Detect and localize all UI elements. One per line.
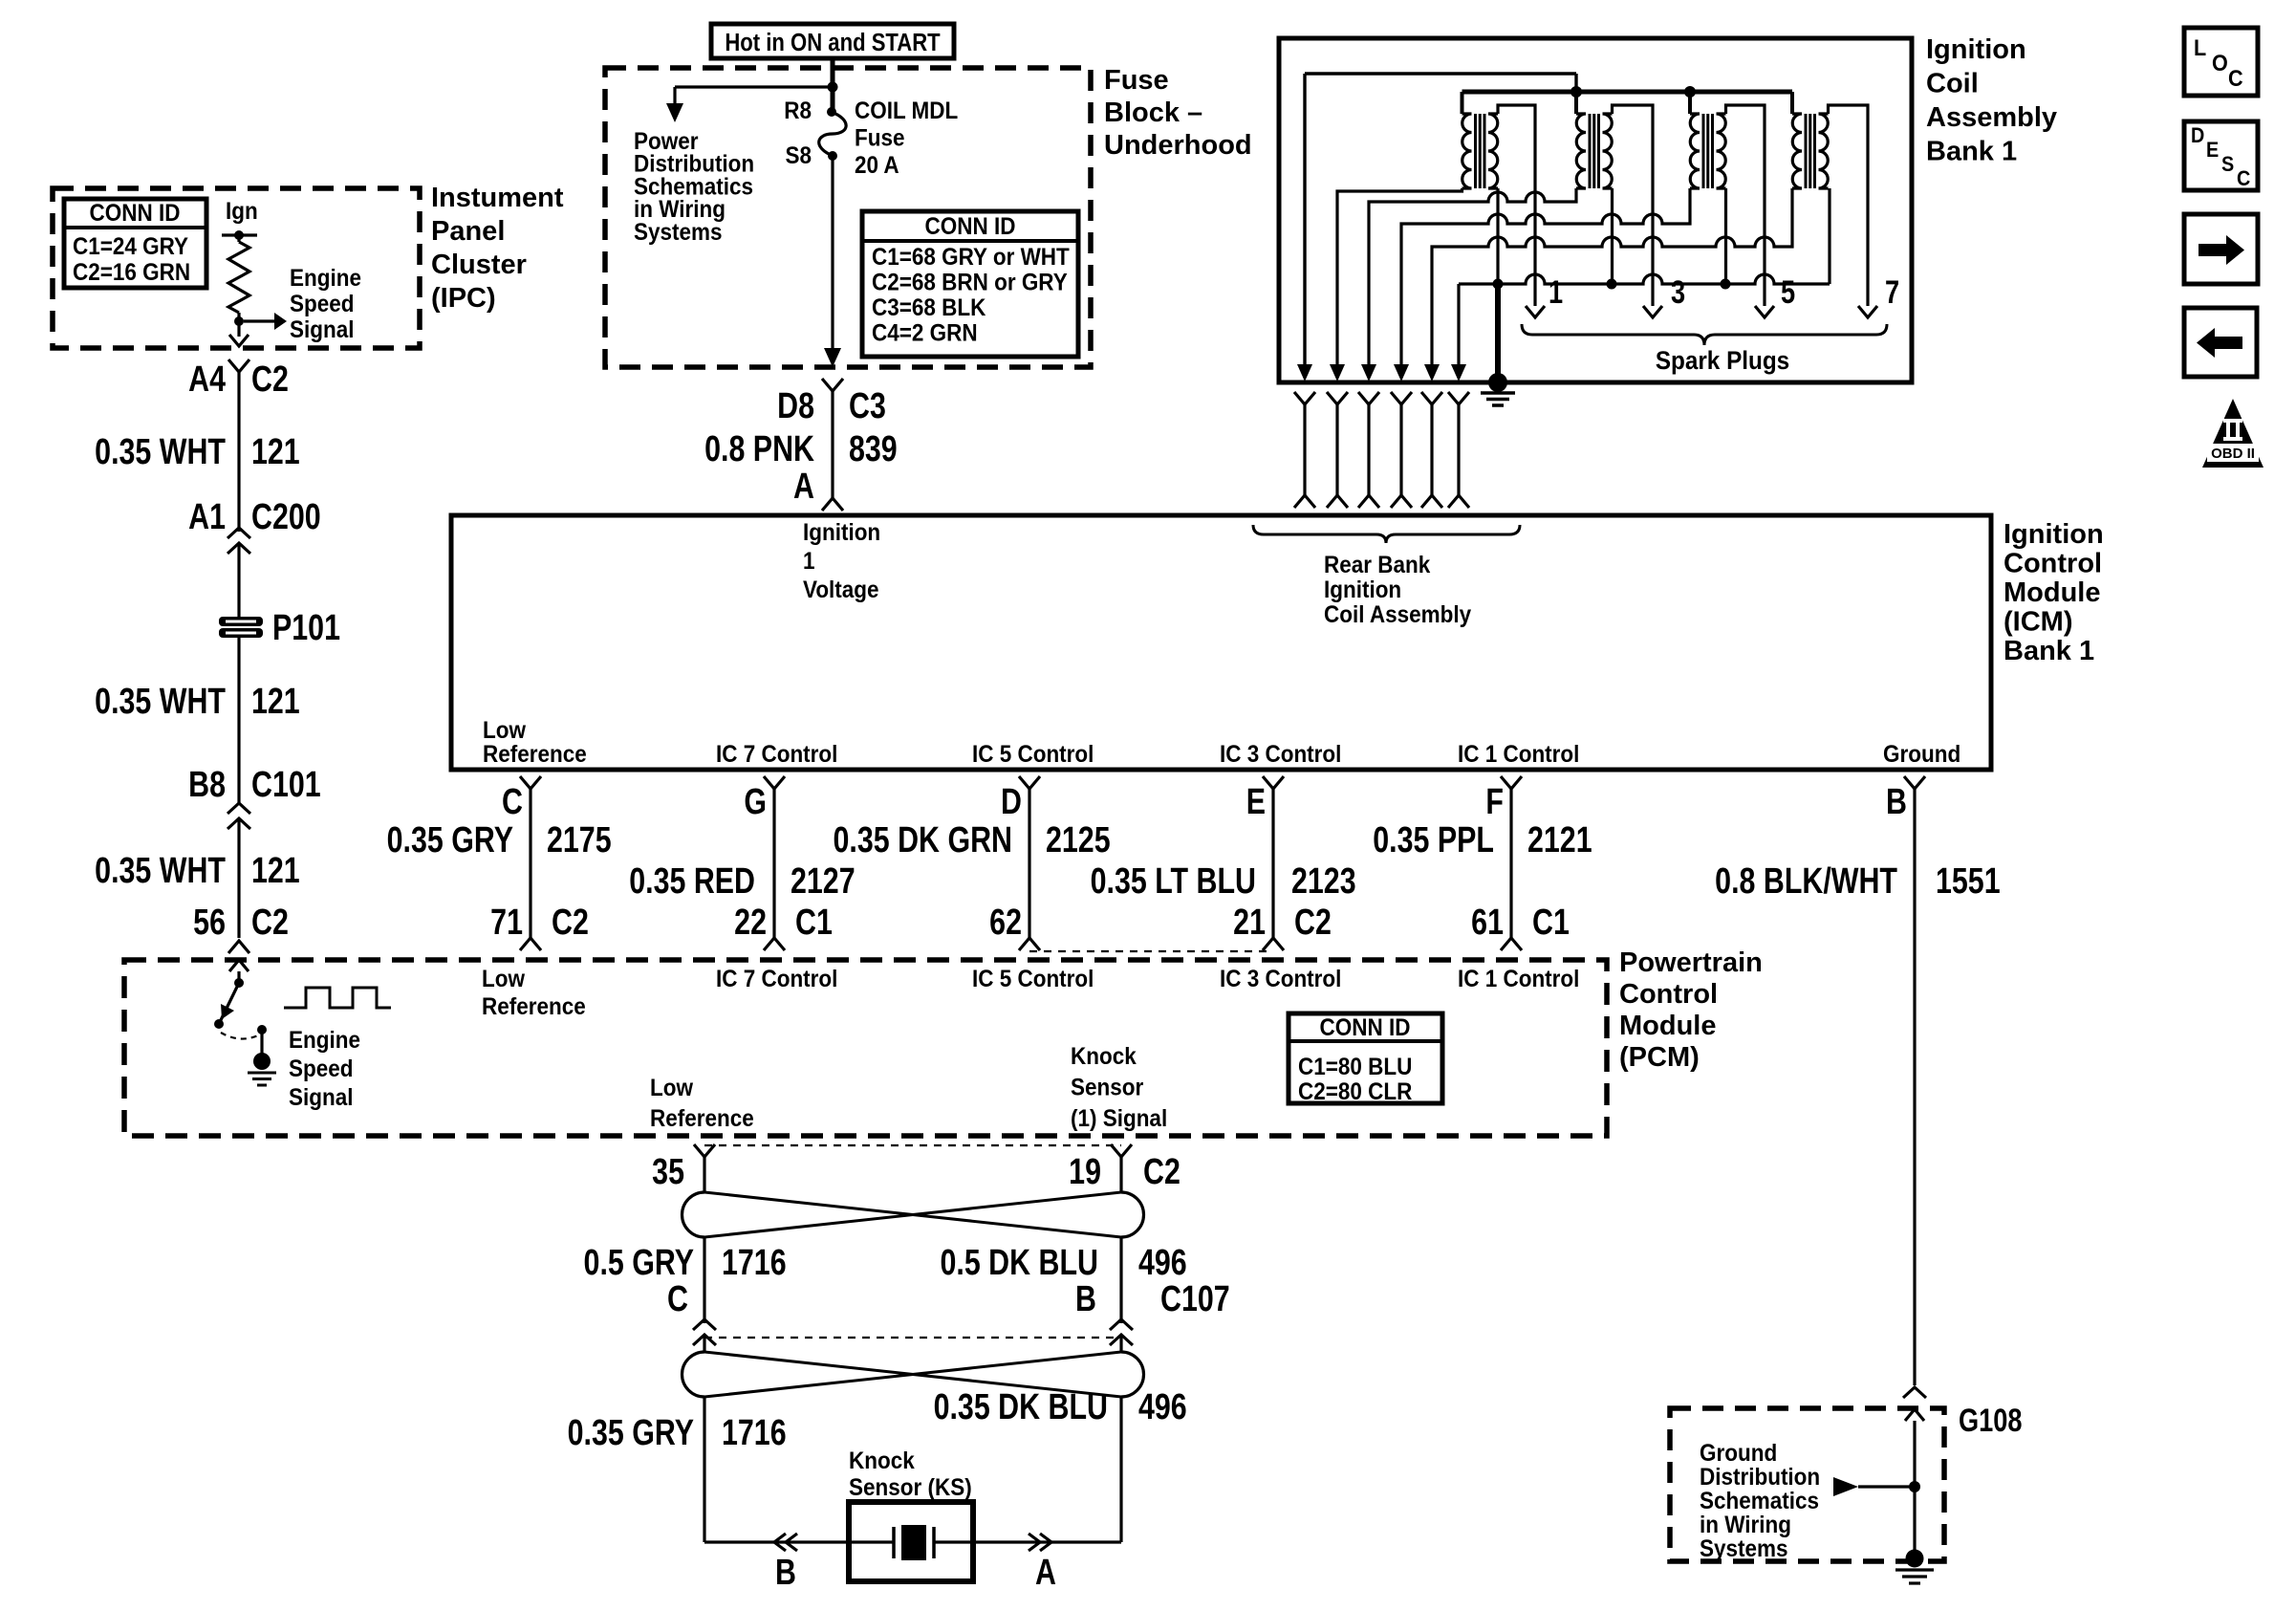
svg-text:0.35 DK GRN: 0.35 DK GRN <box>834 820 1012 860</box>
svg-text:2127: 2127 <box>791 861 856 902</box>
wire pin 19 down <box>1119 1157 1122 1192</box>
svg-text:C1=24 GRY: C1=24 GRY <box>73 233 188 260</box>
switch contact dot 2 <box>257 1025 267 1034</box>
switch contact dot 1 <box>214 1019 224 1029</box>
svg-text:E: E <box>1246 782 1266 822</box>
svg-text:62: 62 <box>989 903 1022 943</box>
svg-text:Rear Bank: Rear Bank <box>1324 552 1431 578</box>
svg-text:C2=68 BRN or GRY: C2=68 BRN or GRY <box>872 269 1068 295</box>
svg-text:IC 5 Control: IC 5 Control <box>972 966 1094 992</box>
wire C200 to P101 <box>237 543 240 618</box>
svg-text:2121: 2121 <box>1527 820 1592 860</box>
spark plug wire 1 arrow <box>1526 306 1545 317</box>
thin dashed connector line pins 35-19 <box>704 1144 1121 1146</box>
Fuse block CONN ID table box <box>862 211 1078 357</box>
svg-text:P101: P101 <box>272 608 340 648</box>
transformer T1 secondary winding <box>1488 114 1498 188</box>
T4 primary bottom lead to terminal <box>1432 188 1792 376</box>
wire from ICM pin F <box>1509 789 1512 938</box>
T3 primary bottom lead to terminal <box>1401 188 1690 376</box>
svg-text:E: E <box>2206 139 2219 162</box>
svg-text:B: B <box>1886 782 1907 822</box>
svg-text:C: C <box>502 782 523 822</box>
svg-text:A4: A4 <box>188 359 226 400</box>
grommet P101 symbol <box>219 617 263 626</box>
in-line connector C101 chevrons <box>227 803 250 814</box>
svg-text:IC 1 Control: IC 1 Control <box>1458 966 1579 992</box>
IPC CONN ID table box <box>64 199 206 288</box>
spark plugs brace <box>1522 324 1887 345</box>
svg-text:Hot in ON and START: Hot in ON and START <box>725 29 941 56</box>
in-line connector C200 chevrons <box>227 528 250 538</box>
engine speed signal arrow <box>244 319 274 322</box>
Knock Sensor (KS) box <box>849 1502 973 1581</box>
coil-ICM wire 1 with connectors <box>1294 392 1315 404</box>
svg-text:0.35 WHT: 0.35 WHT <box>95 432 226 472</box>
OBD II icon triangle <box>2202 399 2264 468</box>
svg-text:0.35 PPL: 0.35 PPL <box>1373 820 1494 860</box>
PCM pin 19 Y connector <box>1111 1144 1132 1157</box>
LOC icon box <box>2184 28 2258 96</box>
svg-text:1716: 1716 <box>722 1413 787 1453</box>
wire to twisted pair 2 left <box>703 1335 705 1352</box>
svg-text:Ignition: Ignition <box>1926 34 2026 65</box>
svg-text:Bank 1: Bank 1 <box>1926 137 2017 167</box>
transformer T3 core <box>1702 114 1705 188</box>
svg-text:D: D <box>2191 124 2204 147</box>
svg-text:2123: 2123 <box>1291 861 1356 902</box>
svg-text:F: F <box>1485 782 1504 822</box>
svg-text:Cluster: Cluster <box>431 250 527 280</box>
svg-text:C2=80 CLR: C2=80 CLR <box>1298 1078 1412 1105</box>
PCM pin 22 inverted Y <box>764 938 785 950</box>
pin A inverted Y into ICM <box>822 498 843 511</box>
svg-text:C: C <box>2237 167 2250 190</box>
svg-text:R8: R8 <box>784 98 812 124</box>
ground symbol G108 <box>1895 1568 1934 1571</box>
wire from ICM pin D <box>1028 789 1030 938</box>
svg-text:496: 496 <box>1138 1387 1187 1427</box>
svg-text:CONN ID: CONN ID <box>90 200 181 227</box>
arrow terminal 1 <box>1297 364 1312 381</box>
Ignition Coil Assembly box <box>1279 38 1912 382</box>
svg-text:71: 71 <box>490 903 523 943</box>
svg-text:B8: B8 <box>188 765 226 805</box>
primary supply bus <box>1462 90 1793 95</box>
resistor R (engine speed signal) zigzag <box>228 242 249 313</box>
ICM pin G Y connector <box>764 776 785 789</box>
svg-text:Ign: Ign <box>226 198 258 225</box>
svg-text:Ignition: Ignition <box>2004 519 2104 550</box>
svg-text:1: 1 <box>803 548 815 575</box>
svg-text:Signal: Signal <box>289 1084 353 1111</box>
ground distribution branch line <box>1858 1485 1915 1488</box>
wire exit arrow IPC box <box>229 335 249 346</box>
wire 496 lower segment <box>1119 1397 1122 1542</box>
coil-ICM wire 2 with connectors <box>1327 392 1348 404</box>
svg-text:21: 21 <box>1233 903 1266 943</box>
ground dot coil assembly <box>1488 373 1507 392</box>
wire fuse output down <box>831 156 834 350</box>
PCM pin 71 inverted Y <box>520 938 541 950</box>
ground dot engine speed signal <box>253 1053 271 1070</box>
wire 121 segment 1 (0.35 WHT) <box>237 372 240 532</box>
T2 secondary bottom lead <box>1611 188 1614 284</box>
svg-text:Block –: Block – <box>1104 98 1202 128</box>
wire 839 (0.8 PNK) <box>831 391 834 498</box>
svg-text:0.35 GRY: 0.35 GRY <box>387 820 513 860</box>
svg-text:Sensor: Sensor <box>1071 1074 1143 1100</box>
svg-text:Systems: Systems <box>634 219 723 246</box>
switch dashed travel arc <box>221 1033 260 1039</box>
svg-text:CONN ID: CONN ID <box>925 213 1016 240</box>
T3 secondary top lead to spark plug wire 5 <box>1726 105 1765 306</box>
in-line connector C107 chevrons right <box>1110 1319 1133 1330</box>
svg-text:Ignition: Ignition <box>1324 577 1401 603</box>
svg-text:121: 121 <box>251 432 300 472</box>
svg-text:Signal: Signal <box>290 316 354 343</box>
ignition coil transformer T4 primary winding <box>1790 92 1794 114</box>
arrow exit fuse block <box>824 348 841 367</box>
svg-text:C2=16 GRN: C2=16 GRN <box>73 259 190 286</box>
svg-text:C2: C2 <box>1294 903 1332 943</box>
svg-text:61: 61 <box>1471 903 1504 943</box>
ignition coil transformer T1 primary winding <box>1461 92 1464 114</box>
label 0.8 BLK/WHT wire chevron above G108 <box>1903 1387 1926 1398</box>
svg-text:Control: Control <box>2004 549 2102 579</box>
coil-ICM wire 3 with connectors <box>1358 392 1379 404</box>
svg-text:0.35 WHT: 0.35 WHT <box>95 851 226 891</box>
svg-text:S8: S8 <box>785 142 812 169</box>
transformer T3 secondary winding <box>1717 114 1726 188</box>
svg-text:121: 121 <box>251 682 300 722</box>
svg-text:Module: Module <box>2004 577 2101 608</box>
G108 ground distribution dashed box <box>1670 1408 1944 1561</box>
svg-text:OBD II: OBD II <box>2211 446 2255 462</box>
wire Ign to resistor <box>237 235 240 242</box>
svg-text:C1=68 GRY or WHT: C1=68 GRY or WHT <box>872 244 1070 271</box>
svg-text:Knock: Knock <box>1071 1043 1137 1070</box>
svg-text:IC 3 Control: IC 3 Control <box>1220 966 1341 992</box>
junction dot engine speed signal <box>234 316 244 326</box>
svg-text:839: 839 <box>849 429 898 469</box>
PCM pin 35 Y connector <box>694 1144 715 1157</box>
svg-text:C1=80 BLU: C1=80 BLU <box>1298 1054 1412 1080</box>
ICM pin E Y connector <box>1263 776 1284 789</box>
svg-text:35: 35 <box>652 1152 684 1192</box>
PCM entry arrow pin 56 <box>229 960 249 971</box>
svg-text:IC 7 Control: IC 7 Control <box>716 741 837 768</box>
svg-text:C2: C2 <box>251 903 289 943</box>
thin dashed connector line between pins 62 and 21 <box>1029 950 1273 952</box>
branch wire to power distribution <box>675 85 833 88</box>
T2 primary bottom lead to terminal <box>1369 188 1576 376</box>
switch moving contact <box>219 983 239 1024</box>
spark plug wire 3 arrow <box>1643 306 1662 317</box>
ground symbol coil assembly <box>1481 391 1515 395</box>
coil-ICM wire 4 with connectors <box>1391 392 1412 404</box>
knock sensor bottom wire right <box>973 1540 1121 1543</box>
wire hot feed into fuse block <box>831 58 835 112</box>
svg-text:121: 121 <box>251 851 300 891</box>
svg-text:C: C <box>667 1279 688 1319</box>
arrow down power distribution <box>666 103 683 122</box>
svg-text:C3=68 BLK: C3=68 BLK <box>872 294 986 321</box>
pin 56 inverted Y into PCM <box>228 941 249 953</box>
back arrow icon box <box>2184 308 2257 377</box>
svg-text:IC 5 Control: IC 5 Control <box>972 741 1094 768</box>
T1 secondary bottom lead <box>1496 188 1499 284</box>
PCM pin 62 inverted Y <box>1019 938 1040 950</box>
wire from ICM pin G <box>772 789 775 938</box>
T3 secondary bottom lead <box>1724 188 1727 284</box>
svg-text:C2: C2 <box>251 359 289 400</box>
svg-text:Speed: Speed <box>289 1056 353 1082</box>
arrow terminal 4 <box>1394 364 1409 381</box>
svg-text:Panel: Panel <box>431 216 505 247</box>
svg-text:2125: 2125 <box>1046 820 1111 860</box>
svg-text:Reference: Reference <box>650 1105 754 1132</box>
svg-text:Systems: Systems <box>1700 1535 1788 1562</box>
svg-text:D: D <box>1001 782 1022 822</box>
svg-text:G: G <box>744 782 767 822</box>
wire 496 upper segment <box>1119 1237 1122 1323</box>
twisted pair symbol 1 <box>682 1192 705 1237</box>
forward arrow icon box <box>2184 214 2258 284</box>
svg-text:C2: C2 <box>1143 1152 1180 1192</box>
IPC dashed box (Instrument Panel Cluster) <box>53 188 420 348</box>
ignition coil transformer T2 primary winding <box>1574 92 1578 114</box>
twisted pair symbol 2 <box>682 1352 705 1397</box>
connector pin A4/C2 Y symbol <box>228 359 249 372</box>
svg-text:Coil: Coil <box>1926 69 1979 99</box>
PCM pin 61 inverted Y <box>1501 938 1522 950</box>
svg-text:O: O <box>2212 50 2228 76</box>
svg-text:0.35 RED: 0.35 RED <box>629 861 755 902</box>
svg-text:IC 7 Control: IC 7 Control <box>716 966 837 992</box>
svg-text:IC 1 Control: IC 1 Control <box>1458 741 1579 768</box>
svg-text:Spark Plugs: Spark Plugs <box>1656 347 1789 375</box>
svg-text:Fuse: Fuse <box>855 124 904 151</box>
junction dot feed branch <box>828 82 838 93</box>
wire 1716 upper segment <box>703 1237 705 1323</box>
entry arrow into G108 box <box>1905 1409 1924 1421</box>
wire 121 segment 2 <box>237 638 240 804</box>
in-line connector C107 chevrons left <box>693 1319 716 1330</box>
wire pin 35 down <box>703 1157 705 1192</box>
svg-text:S: S <box>2221 153 2234 176</box>
spark plug wire 7 arrow <box>1858 306 1877 317</box>
arrow terminal 2 <box>1330 364 1345 381</box>
arrow terminal 5 <box>1424 364 1440 381</box>
svg-text:(ICM): (ICM) <box>2004 607 2072 638</box>
svg-text:C3: C3 <box>849 386 886 426</box>
connector D8/C3 Y symbol <box>822 379 843 391</box>
svg-text:1: 1 <box>1549 273 1563 311</box>
svg-text:3: 3 <box>1671 273 1685 311</box>
transformer T2 secondary winding <box>1603 114 1613 188</box>
svg-text:5: 5 <box>1781 273 1795 311</box>
svg-text:0.35 GRY: 0.35 GRY <box>568 1413 694 1453</box>
wire ignition feed from terminal 1 <box>1303 74 1306 376</box>
PCM dashed box (Powertrain Control Module) <box>124 960 1607 1136</box>
svg-text:C107: C107 <box>1160 1279 1230 1319</box>
transformer T4 core <box>1805 114 1808 188</box>
ICM pin C Y connector <box>520 776 541 789</box>
svg-text:Ignition: Ignition <box>803 519 880 546</box>
ground wire coil assembly <box>1495 284 1501 382</box>
svg-text:2175: 2175 <box>547 820 612 860</box>
svg-text:0.35 LT BLU: 0.35 LT BLU <box>1091 861 1256 902</box>
arrow terminal 3 <box>1361 364 1376 381</box>
svg-text:C4=2 GRN: C4=2 GRN <box>872 319 978 346</box>
svg-text:0.35 WHT: 0.35 WHT <box>95 682 226 722</box>
svg-text:Assembly: Assembly <box>1926 102 2057 133</box>
DESC icon box <box>2184 121 2258 190</box>
ICM pin F Y connector <box>1501 776 1522 789</box>
svg-text:C200: C200 <box>251 497 321 537</box>
wire contact to ground <box>260 1030 263 1054</box>
Hot in ON and START box <box>711 24 954 58</box>
Ign node tick and junction dot <box>222 233 257 236</box>
ICM box (Ignition Control Module) <box>451 515 1991 770</box>
svg-text:Control: Control <box>1619 979 1718 1010</box>
svg-text:0.5 DK BLU: 0.5 DK BLU <box>940 1243 1098 1283</box>
svg-text:1551: 1551 <box>1936 861 2001 902</box>
svg-text:Reference: Reference <box>483 741 587 768</box>
svg-text:C2: C2 <box>552 903 589 943</box>
svg-text:Low: Low <box>482 966 525 992</box>
svg-text:7: 7 <box>1885 273 1899 311</box>
svg-text:Speed: Speed <box>290 291 354 317</box>
T1 secondary top lead to spark plug wire 1 <box>1498 105 1535 306</box>
knock sensor pin A chevrons <box>1040 1534 1051 1551</box>
svg-text:A1: A1 <box>188 497 226 537</box>
svg-text:56: 56 <box>193 903 226 943</box>
coil-ICM wire 5 with connectors <box>1421 392 1442 404</box>
wire to twisted pair 2 right <box>1119 1335 1122 1352</box>
T4 secondary bottom lead to return bus <box>1828 188 1830 284</box>
transformer T2 core <box>1589 114 1592 188</box>
transformer T1 core <box>1474 114 1477 188</box>
wire from ICM pin C <box>529 789 531 938</box>
junction dot bus T2 <box>1570 86 1582 98</box>
svg-text:Reference: Reference <box>482 993 586 1020</box>
svg-text:L: L <box>2194 34 2206 60</box>
svg-text:B: B <box>775 1553 796 1593</box>
svg-text:0.35 DK BLU: 0.35 DK BLU <box>934 1387 1108 1427</box>
secondary return bus <box>1459 274 1830 284</box>
svg-text:Powertrain: Powertrain <box>1619 947 1763 978</box>
svg-text:D8: D8 <box>777 386 814 426</box>
svg-text:Knock: Knock <box>849 1448 915 1474</box>
svg-text:C101: C101 <box>251 765 321 805</box>
ignition coil transformer T3 primary winding <box>1688 92 1692 114</box>
wire resistor to junction <box>237 313 240 337</box>
svg-text:Instument: Instument <box>431 183 564 213</box>
svg-text:19: 19 <box>1069 1152 1101 1192</box>
svg-text:22: 22 <box>734 903 767 943</box>
ground dot G108 <box>1906 1550 1924 1568</box>
ICM pin D Y connector <box>1019 776 1040 789</box>
T4 secondary top lead to spark plug wire 7 <box>1829 105 1869 306</box>
ICM pin B Y connector <box>1904 776 1925 789</box>
svg-text:C1: C1 <box>795 903 833 943</box>
rear bank brace <box>1253 525 1520 543</box>
Fuse Block dashed box <box>605 68 1091 367</box>
thin dashed connector line C107 <box>704 1337 1121 1339</box>
T1 primary bottom lead to terminal <box>1337 188 1462 376</box>
junction dots secondary returns <box>1493 279 1504 290</box>
T2 secondary top lead to spark plug wire 3 <box>1613 105 1654 306</box>
spark plug wire 5 arrow <box>1755 306 1774 317</box>
square wave signal symbol <box>284 988 391 1008</box>
svg-text:A: A <box>1035 1553 1056 1593</box>
svg-text:Underhood: Underhood <box>1104 130 1252 161</box>
svg-text:496: 496 <box>1138 1243 1187 1283</box>
arrow terminal 6 <box>1451 364 1466 381</box>
svg-text:G108: G108 <box>1959 1402 2022 1439</box>
svg-text:Fuse: Fuse <box>1104 65 1169 96</box>
transformer T4 secondary winding <box>1819 114 1829 188</box>
PCM CONN ID table box <box>1289 1013 1442 1103</box>
fuse COIL MDL symbol <box>827 107 836 117</box>
svg-text:(IPC): (IPC) <box>431 283 496 314</box>
svg-text:0.8 BLK/WHT: 0.8 BLK/WHT <box>1715 861 1897 902</box>
svg-text:C1: C1 <box>1532 903 1570 943</box>
svg-text:Module: Module <box>1619 1011 1717 1041</box>
wire ground inside G108 box <box>1913 1421 1916 1558</box>
junction dot switch pivot <box>234 978 244 988</box>
svg-text:0.8 PNK: 0.8 PNK <box>704 429 814 469</box>
svg-text:A: A <box>793 467 814 507</box>
svg-text:1716: 1716 <box>722 1243 787 1283</box>
wire terminal 6 low reference <box>1457 284 1460 376</box>
wire from ICM pin B <box>1913 789 1916 1385</box>
knock sensor bottom wire left <box>704 1540 849 1543</box>
junction dot bus T3 <box>1684 86 1696 98</box>
wire 1716 lower segment <box>703 1397 705 1542</box>
junction dot G108 <box>1909 1481 1920 1492</box>
wire engine speed signal inside PCM <box>237 971 240 983</box>
svg-text:Sensor (KS): Sensor (KS) <box>849 1474 972 1501</box>
wire from ICM pin E <box>1271 789 1274 938</box>
svg-text:Voltage: Voltage <box>803 577 879 603</box>
svg-text:COIL MDL: COIL MDL <box>855 98 958 124</box>
svg-text:Engine: Engine <box>290 265 361 292</box>
svg-text:Bank 1: Bank 1 <box>2004 636 2094 666</box>
svg-text:Coil Assembly: Coil Assembly <box>1324 601 1472 628</box>
svg-text:IC 3 Control: IC 3 Control <box>1220 741 1341 768</box>
knock sensor piezo element symbol <box>852 1540 894 1543</box>
svg-text:C: C <box>2228 65 2243 91</box>
svg-text:0.5 GRY: 0.5 GRY <box>584 1243 694 1283</box>
coil-ICM wire 6 with connectors <box>1448 392 1469 404</box>
PCM pin 21 inverted Y <box>1263 938 1284 950</box>
wire 121 segment 3 <box>237 818 240 938</box>
svg-text:Low: Low <box>650 1075 693 1101</box>
svg-text:20 A: 20 A <box>855 152 899 179</box>
knock sensor pin B chevrons <box>774 1534 786 1551</box>
svg-text:B: B <box>1075 1279 1096 1319</box>
ground symbol engine speed signal <box>248 1072 276 1075</box>
ground distribution arrow <box>1833 1477 1858 1496</box>
svg-text:(1) Signal: (1) Signal <box>1071 1105 1167 1132</box>
svg-text:(PCM): (PCM) <box>1619 1042 1700 1073</box>
svg-text:CONN ID: CONN ID <box>1320 1014 1411 1041</box>
svg-text:Engine: Engine <box>289 1027 360 1054</box>
svg-text:Ground: Ground <box>1883 741 1960 768</box>
